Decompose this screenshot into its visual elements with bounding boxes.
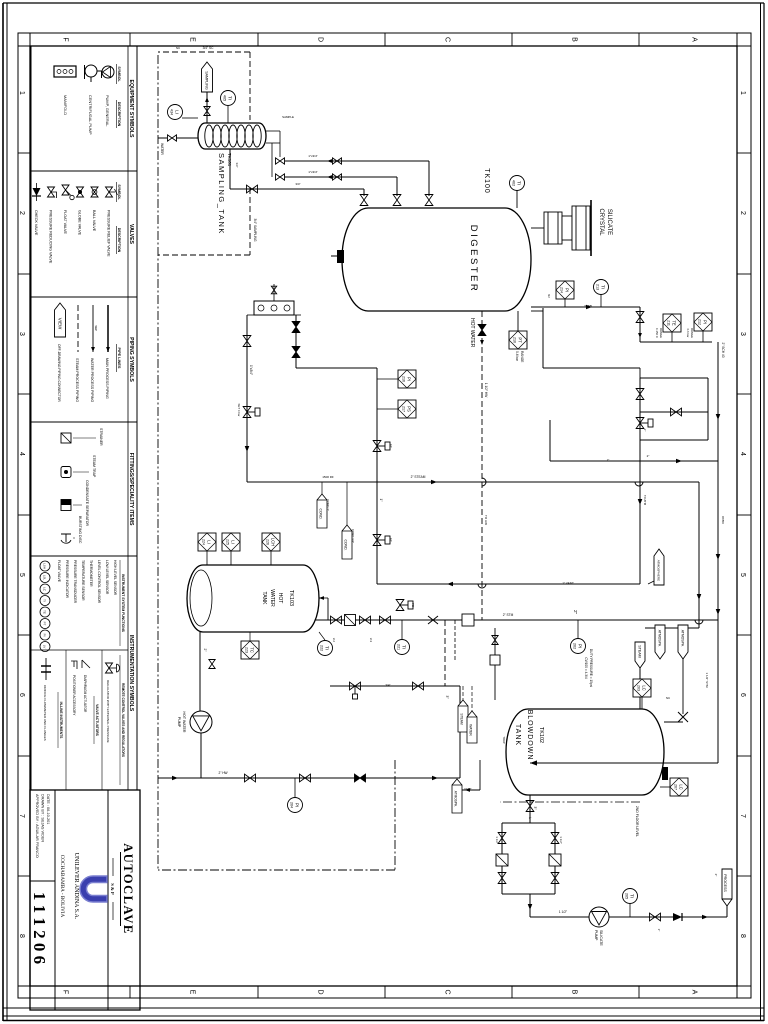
valve V104	[247, 185, 258, 193]
pipe lower cross link	[376, 368, 378, 584]
check valve	[673, 913, 682, 921]
flow arrow	[528, 904, 533, 910]
pipe branch left	[502, 822, 555, 824]
legend strainer	[61, 433, 71, 443]
instrument PI-202	[571, 639, 586, 654]
svg-text:5: 5	[739, 573, 746, 577]
svg-text:REMOTE CONTROL VALVES AND REGU: REMOTE CONTROL VALVES AND REGULATORS	[121, 683, 125, 757]
wire riser 3	[230, 188, 364, 190]
svg-text:STRAINER: STRAINER	[99, 428, 103, 446]
outer border top 2	[760, 3, 762, 1021]
zone divider right	[257, 986, 259, 998]
valve V126	[209, 660, 215, 669]
legend float valve	[62, 185, 69, 195]
pipe hot water supply	[158, 777, 460, 779]
svg-text:3/4" SC: 3/4" SC	[203, 46, 215, 50]
pipe to blowdown steam	[698, 482, 700, 628]
wire digester nozzle 3	[363, 189, 365, 196]
svg-text:BURSTING DISC: BURSTING DISC	[78, 516, 82, 544]
valve V112	[292, 322, 300, 333]
svg-text:LV: LV	[43, 645, 47, 648]
digester inlet nozzle	[337, 250, 344, 263]
svg-text:ORIFICE FLOWMETER AND FLANGES: ORIFICE FLOWMETER AND FLANGES	[43, 685, 47, 741]
crossover	[695, 620, 703, 624]
svg-text:ATMOSPH.: ATMOSPH.	[680, 630, 684, 648]
legend section INSTRUMENTATION SYMBOLS	[31, 556, 137, 790]
svg-text:CRYSTAL: CRYSTAL	[598, 208, 604, 236]
svg-text:2ND FLOOR LEVEL: 2ND FLOOR LEVEL	[635, 806, 639, 837]
valve V119	[380, 616, 391, 624]
svg-text:STEAM PROCESS PIPING: STEAM PROCESS PIPING	[75, 358, 79, 402]
flow arrow	[447, 582, 453, 587]
svg-text:COND 1": COND 1"	[326, 499, 330, 511]
legend condensate separator	[61, 500, 71, 511]
control valve CV-4	[373, 535, 381, 546]
valve V111	[243, 336, 251, 347]
instrument TI-221	[395, 640, 410, 655]
legend diaphragm actuator	[82, 660, 90, 668]
svg-text:TE: TE	[672, 320, 677, 326]
svg-text:F: F	[62, 990, 69, 994]
svg-text:SAMPLING_TANK: SAMPLING_TANK	[217, 153, 226, 235]
svg-text:PI: PI	[565, 288, 570, 292]
zone divider top	[737, 875, 751, 877]
svg-text:1" VENT: 1" VENT	[562, 581, 574, 585]
svg-text:ATMOSPHERE: ATMOSPHERE	[656, 560, 660, 581]
wire TI-221	[401, 620, 403, 640]
instrument PI-216	[398, 370, 416, 388]
svg-text:CV/100 = 4.3/4: CV/100 = 4.3/4	[584, 657, 588, 679]
legend ball valve	[91, 187, 98, 197]
svg-text:224: 224	[202, 539, 206, 545]
control valve CV-3	[350, 682, 361, 690]
wire steam flag	[462, 686, 464, 700]
strainer S1	[345, 615, 356, 626]
wire tank vent	[479, 760, 481, 790]
svg-text:THERMOMETER: THERMOMETER	[89, 560, 93, 587]
pipe loop to branch	[639, 440, 641, 584]
svg-text:LC: LC	[642, 685, 647, 690]
crossover x482-y128	[635, 482, 643, 486]
svg-text:FC: FC	[389, 538, 393, 542]
svg-text:2" SCH 40: 2" SCH 40	[721, 343, 725, 358]
outer border right 1	[3, 1015, 764, 1017]
instrument PI-212	[694, 313, 712, 331]
pipe feed riser	[543, 367, 640, 369]
wire LI-434	[182, 117, 198, 119]
strip inner top	[736, 33, 738, 998]
svg-text:LI: LI	[207, 540, 212, 544]
coil ring	[245, 125, 253, 147]
svg-text:STEAM: STEAM	[460, 713, 464, 725]
pipe to process	[726, 906, 728, 917]
legend instrument PT	[40, 619, 50, 629]
pipe loop middle	[640, 411, 708, 413]
svg-text:1 1/2" STM: 1 1/2" STM	[705, 673, 709, 688]
svg-text:5: 5	[18, 573, 25, 577]
pipe to silicate pump	[529, 894, 531, 917]
2nd floor level dash-dot	[500, 801, 640, 803]
svg-text:E: E	[189, 990, 196, 995]
svg-text:2" STM: 2" STM	[503, 613, 514, 617]
svg-text:VALVES: VALVES	[128, 224, 134, 245]
instrument LI-434	[168, 105, 183, 120]
svg-text:SILICATE: SILICATE	[606, 209, 612, 235]
valve V120	[526, 801, 534, 812]
pipe right branch	[377, 583, 640, 585]
svg-text:222: 222	[320, 645, 324, 651]
svg-text:DIGESTER: DIGESTER	[468, 225, 479, 294]
svg-text:1 1/2": 1 1/2"	[495, 836, 499, 843]
svg-text:ATMOSPH.: ATMOSPH.	[454, 791, 458, 808]
flow arrow	[172, 776, 178, 781]
outer border right 2	[3, 1020, 764, 1022]
svg-text:2": 2"	[607, 458, 610, 462]
wire TK101 top 1b	[279, 131, 281, 157]
svg-text:1 1/2": 1 1/2"	[559, 910, 567, 914]
instrument TI-402	[510, 176, 525, 191]
svg-text:WATER: WATER	[269, 589, 275, 607]
pipe branch h218	[549, 420, 551, 461]
legend instrument PI	[40, 630, 50, 640]
valve V109	[276, 174, 285, 180]
svg-text:LC: LC	[679, 784, 684, 789]
legend instrument LSH	[40, 561, 50, 571]
svg-text:LSL: LSL	[43, 575, 47, 581]
wire digester nozzle 1	[428, 161, 430, 196]
strip inner bottom	[29, 33, 31, 998]
instrument PS-217	[398, 400, 416, 418]
valve V130	[413, 682, 424, 690]
valve V127	[245, 774, 256, 782]
instrument TE-211	[663, 314, 681, 332]
wire outlet horizontal	[639, 307, 641, 342]
svg-text:HOT WATER: HOT WATER	[469, 318, 475, 348]
svg-text:EQUIPMENT SYMBOLS: EQUIPMENT SYMBOLS	[128, 80, 134, 138]
legend manifold	[54, 66, 76, 77]
svg-text:INSTRUMENT SYSTEM FUNCTIONS: INSTRUMENT SYSTEM FUNCTIONS	[121, 574, 125, 633]
pipe right riser	[550, 460, 718, 462]
zone divider left	[129, 33, 131, 46]
svg-text:0-6 bar: 0-6 bar	[686, 329, 690, 338]
instrument LC-203	[633, 679, 651, 697]
svg-text:PUMP: PUMP	[177, 717, 181, 728]
svg-text:A: A	[691, 37, 698, 42]
svg-text:PS: PS	[407, 406, 412, 412]
flag SAMPLING	[202, 62, 213, 92]
wire riser 1	[285, 160, 429, 162]
outer border bottom 2	[2, 3, 4, 1021]
wire flag2	[346, 482, 348, 525]
valve V102b	[333, 174, 342, 180]
flag ATMOSPHERE vent	[654, 549, 664, 585]
wire water inlet	[176, 137, 198, 139]
pump HOT WATER	[190, 711, 212, 733]
svg-text:PIPE LINES: PIPE LINES	[117, 348, 121, 369]
flow arrow	[245, 446, 250, 452]
flow arrow	[530, 760, 537, 765]
svg-text:1 1 1 2 0 6: 1 1 1 2 0 6	[30, 892, 49, 964]
pipe loop bottom	[639, 378, 641, 440]
svg-text:HOT: HOT	[277, 593, 283, 604]
wire PT-210	[517, 311, 519, 331]
svg-text:V-3: V-3	[369, 638, 373, 643]
legend globe valve	[77, 187, 84, 197]
pipe branch vertical	[330, 685, 460, 687]
flow arrow	[205, 97, 209, 102]
wire sampling	[206, 92, 208, 123]
svg-text:LSH: LSH	[43, 563, 47, 569]
legend pressure reducing valve	[48, 187, 55, 197]
svg-text:2": 2"	[203, 649, 207, 652]
zone divider left	[257, 33, 259, 46]
instrument TI-205	[623, 889, 638, 904]
svg-text:2": 2"	[573, 610, 578, 615]
svg-text:8: 8	[18, 934, 25, 938]
svg-text:S & P: S & P	[110, 883, 115, 895]
pipe pump discharge	[200, 733, 202, 778]
flag ATMOSPHERE 3	[655, 625, 665, 659]
title block outline	[30, 790, 140, 1010]
svg-text:COCHABAMBA - BOLIVIA: COCHABAMBA - BOLIVIA	[59, 855, 65, 918]
svg-text:SAMPLE: SAMPLE	[282, 115, 294, 119]
pipe HOT WATER dashed	[481, 311, 483, 620]
flow arrow	[327, 159, 332, 163]
svg-text:PUMP: PUMP	[594, 930, 598, 941]
legend instrument TI	[40, 596, 50, 606]
wire digester top outlet	[531, 306, 640, 308]
pipe manifold to header	[246, 315, 248, 482]
wire TK101 drain	[229, 149, 231, 189]
svg-text:1: 1	[739, 91, 746, 95]
wire TI-405	[227, 106, 229, 123]
instrument PT-210	[509, 331, 527, 349]
svg-text:TK102: TK102	[538, 727, 544, 743]
svg-text:PI: PI	[703, 320, 708, 324]
svg-text:PRESSURE RELIEF VALVE: PRESSURE RELIEF VALVE	[107, 210, 111, 257]
valve V105	[636, 312, 644, 323]
legend section EQUIPMENT SYMBOLS	[31, 46, 137, 171]
title block divider 2	[54, 790, 56, 1010]
wire TK101 top 2b	[271, 143, 273, 177]
svg-text:PROCESS: PROCESS	[723, 874, 727, 892]
vessel TK101 SAMPLING TANK	[198, 123, 266, 149]
svg-text:8: 8	[739, 934, 746, 938]
pipe extension to dip tube	[717, 620, 719, 763]
svg-text:TI: TI	[228, 96, 233, 100]
svg-text:COND 3/4": COND 3/4"	[351, 529, 355, 543]
svg-text:6: 6	[739, 693, 746, 697]
wire down	[296, 367, 377, 369]
valve V131	[492, 636, 498, 645]
zone divider bottom	[18, 755, 30, 757]
outer border left	[3, 2, 764, 4]
legend section PIPING SYMBOLS	[31, 297, 137, 422]
svg-text:SET 4 bar: SET 4 bar	[237, 404, 241, 417]
valve V115	[636, 389, 644, 400]
svg-text:D: D	[317, 989, 324, 994]
svg-text:POSITIONER ACCESSORY: POSITIONER ACCESSORY	[72, 675, 76, 716]
zone divider bottom	[18, 634, 30, 636]
legend main process piping	[107, 305, 109, 352]
svg-text:PI: PI	[43, 634, 47, 637]
svg-text:TO ATM: TO ATM	[643, 495, 647, 506]
svg-text:4: 4	[18, 452, 25, 456]
battery limit dash-dot horizontal	[157, 55, 159, 870]
crossover	[482, 478, 486, 486]
svg-text:SILICATE: SILICATE	[599, 930, 603, 946]
svg-text:DUTY PRESSURE = 15psi: DUTY PRESSURE = 15psi	[589, 649, 593, 688]
title block divider 3	[30, 880, 55, 882]
wire PI-202	[577, 620, 579, 638]
svg-text:HIGH LEVEL SENSOR: HIGH LEVEL SENSOR	[113, 560, 117, 596]
svg-text:221: 221	[397, 644, 401, 650]
svg-text:3/4": 3/4"	[235, 163, 239, 168]
battery limit dash-dot upper	[394, 760, 396, 870]
svg-text:TK100: TK100	[483, 168, 490, 194]
instrument TI-405	[221, 91, 236, 106]
coil ring	[237, 125, 245, 147]
zone divider bottom	[18, 875, 30, 877]
svg-text:205: 205	[625, 893, 629, 899]
valve V128	[300, 774, 311, 782]
vessel TK103 HOT WATER TANK	[187, 565, 319, 632]
svg-text:2: 2	[739, 211, 746, 215]
pipe steam header to TK103	[310, 619, 718, 621]
wire digester nozzle 2	[396, 177, 398, 196]
svg-text:UNILEVER ANDINA S.A.: UNILEVER ANDINA S.A.	[73, 853, 79, 920]
svg-text:IN-LINE INSTRUMENTS: IN-LINE INSTRUMENTS	[59, 702, 63, 739]
outer border top 1	[763, 3, 765, 1021]
legend steam trap	[61, 467, 71, 478]
svg-text:223: 223	[245, 647, 249, 653]
zone divider bottom	[18, 514, 30, 516]
svg-text:V-2: V-2	[332, 638, 336, 643]
pipe branch right	[502, 893, 555, 895]
Unilever U logo	[80, 876, 107, 902]
svg-text:150# RF: 150# RF	[322, 475, 334, 479]
svg-text:TRAP: TRAP	[502, 736, 506, 744]
svg-text:WATER: WATER	[469, 724, 473, 736]
valve V116	[671, 408, 682, 416]
svg-text:TC: TC	[250, 647, 255, 653]
svg-text:1": 1"	[379, 499, 383, 502]
svg-text:B: B	[571, 990, 578, 995]
svg-text:MAIN PROCESS PIPING: MAIN PROCESS PIPING	[105, 358, 109, 399]
svg-text:PI: PI	[295, 803, 300, 807]
wire riser 2	[285, 176, 397, 178]
valve V103	[360, 195, 368, 206]
pipe loop right	[640, 439, 708, 441]
svg-text:CONDENSATE SEPARATOR: CONDENSATE SEPARATOR	[85, 480, 89, 526]
svg-text:202: 202	[573, 643, 577, 649]
strip inner left	[18, 45, 751, 47]
valve V129	[355, 774, 366, 782]
svg-text:3: 3	[739, 332, 746, 336]
svg-text:PRESSURE INDICATOR: PRESSURE INDICATOR	[65, 560, 69, 598]
svg-text:DESCRIPTION: DESCRIPTION	[117, 102, 121, 127]
svg-text:1": 1"	[643, 429, 647, 432]
flow arrow	[432, 776, 438, 781]
svg-text:STEAM TRAP: STEAM TRAP	[92, 455, 96, 478]
svg-text:VIEW: VIEW	[57, 318, 62, 330]
svg-text:402: 402	[512, 180, 516, 186]
svg-text:3" NB: 3" NB	[584, 304, 592, 308]
pipe dashed branch 2	[454, 620, 456, 660]
strainer S3	[496, 854, 508, 866]
dished head hatch	[190, 570, 212, 626]
regulator PRV-1	[243, 407, 251, 418]
svg-text:405: 405	[223, 95, 227, 101]
svg-text:DATE : 06-10-201: DATE : 06-10-201	[46, 794, 50, 824]
globe valve	[428, 616, 438, 624]
svg-text:BALL VALVE: BALL VALVE	[92, 210, 96, 232]
control valve CV-2	[636, 418, 644, 429]
svg-text:TI: TI	[630, 894, 635, 898]
wire TK103 inlet	[319, 597, 328, 599]
svg-text:TE: TE	[43, 610, 47, 614]
zone divider left	[511, 33, 513, 46]
flag WATER 2	[467, 711, 477, 743]
pipe header vertical	[247, 481, 699, 483]
flag STEAM 2	[458, 700, 468, 732]
control valve CV-5	[396, 600, 404, 611]
legend off-drawing connector	[55, 303, 66, 337]
legend bursting disc	[61, 534, 71, 543]
pipe sampling dashed vertical	[158, 51, 250, 53]
svg-text:CHECK VALVE: CHECK VALVE	[34, 210, 38, 236]
svg-text:PT: PT	[518, 337, 523, 343]
svg-text:PIPING SYMBOLS: PIPING SYMBOLS	[128, 337, 134, 382]
instrument TI-213	[594, 280, 609, 295]
pipe to steam header	[376, 368, 378, 482]
zone divider bottom	[18, 273, 30, 275]
svg-text:225: 225	[226, 539, 230, 545]
svg-text:CENTRIFUGAL PUMP: CENTRIFUGAL PUMP	[88, 95, 93, 135]
svg-text:3": 3"	[529, 816, 532, 820]
svg-text:LI: LI	[175, 110, 180, 114]
instrument PI-204	[288, 798, 303, 813]
svg-text:2": 2"	[714, 874, 718, 877]
svg-text:TANK: TANK	[514, 724, 521, 746]
svg-text:1"x3/4": 1"x3/4"	[308, 154, 317, 158]
legend centrifugal pump	[85, 65, 97, 77]
svg-text:PRESSURE TRANSDUCER: PRESSURE TRANSDUCER	[73, 560, 77, 604]
valve V121	[551, 833, 559, 844]
wire TI-402 to vessel	[516, 190, 518, 208]
legend instrument TE	[40, 607, 50, 617]
zone divider bottom	[18, 393, 30, 395]
flag CONDENSATE 2	[342, 525, 352, 559]
instrument TC-223	[241, 641, 259, 659]
svg-text:GLOBE VALVE: GLOBE VALVE	[78, 210, 82, 236]
svg-text:7: 7	[739, 814, 746, 818]
wire TK101 top 2	[266, 142, 280, 144]
battery limit dash-dot vertical	[158, 869, 395, 871]
svg-text:REGULATOR WITH EXTERNAL PRESSU: REGULATOR WITH EXTERNAL PRESSURE	[106, 680, 110, 743]
svg-text:A: A	[691, 990, 698, 995]
instrument LC-207	[670, 778, 688, 796]
flow arrow	[91, 347, 95, 352]
wire TK101 top 1	[266, 130, 280, 132]
flow arrow	[431, 480, 437, 485]
valve V118	[360, 616, 371, 624]
zone divider top	[737, 152, 751, 154]
manifold	[254, 301, 294, 315]
svg-text:1"x3/4": 1"x3/4"	[308, 170, 317, 174]
svg-text:C: C	[444, 989, 451, 994]
steam trap	[490, 655, 500, 665]
